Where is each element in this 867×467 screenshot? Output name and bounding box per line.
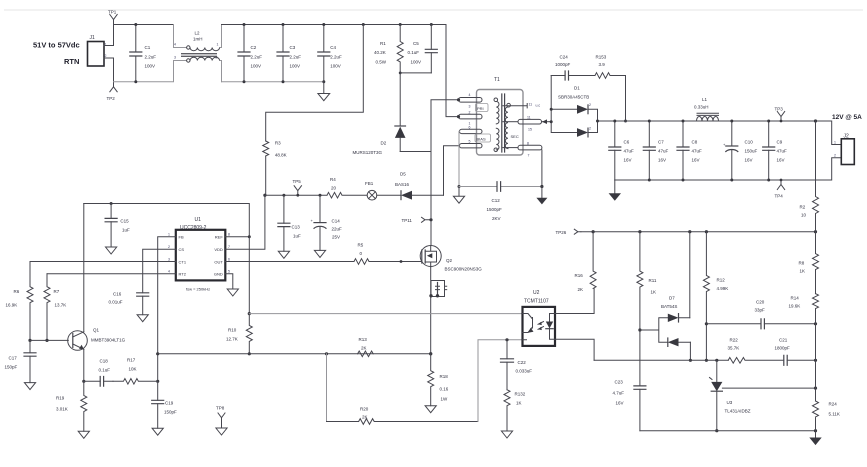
svg-text:OUT: OUT (214, 259, 223, 264)
svg-text:R14: R14 (791, 296, 800, 301)
svg-text:100V: 100V (251, 64, 262, 69)
svg-text:2.2uF: 2.2uF (330, 55, 342, 60)
wire J1 pin1 to rail (104, 25, 114, 46)
svg-text:D5: D5 (400, 172, 406, 177)
svg-text:R2: R2 (800, 205, 806, 210)
svg-text:13.7K: 13.7K (55, 303, 67, 308)
svg-text:U1: U1 (195, 217, 202, 223)
svg-text:19.6K: 19.6K (789, 304, 801, 309)
svg-text:16V: 16V (616, 401, 624, 406)
svg-text:C22: C22 (518, 360, 527, 365)
svg-text:1800pF: 1800pF (775, 346, 791, 351)
svg-text:1500pF: 1500pF (487, 207, 503, 212)
svg-text:U3: U3 (727, 400, 733, 405)
capacitor C12 (459, 182, 542, 221)
diode D2 MURS120T3G (353, 73, 406, 155)
wire OUT pin6 to R5 (225, 261, 354, 263)
svg-text:CT1: CT1 (179, 259, 187, 264)
resistor R6 (6, 262, 34, 343)
capacitor C6 (609, 120, 634, 181)
svg-text:BSC900N20NS3G: BSC900N20NS3G (445, 267, 483, 272)
svg-text:1uF: 1uF (293, 234, 301, 239)
svg-text:TL431AIDBZ: TL431AIDBZ (725, 409, 751, 414)
connector J1 (88, 35, 107, 66)
svg-text:PRI: PRI (477, 106, 484, 111)
wire VDD node line (265, 194, 327, 196)
wire opto collector long line (249, 313, 522, 315)
svg-text:CS: CS (179, 247, 185, 252)
resistor R17 (113, 358, 158, 385)
svg-text:C20: C20 (756, 300, 765, 305)
svg-text:3: 3 (168, 257, 170, 261)
T1 primary pin stub 2/1 (459, 114, 483, 119)
svg-text:1K: 1K (651, 290, 657, 295)
capacitor C23 (613, 380, 646, 431)
svg-text:15: 15 (528, 128, 532, 132)
svg-text:12V @ 5A: 12V @ 5A (832, 114, 862, 121)
wire VDD pin7 (225, 194, 266, 250)
svg-text:16V: 16V (745, 158, 753, 163)
resistor R4 (327, 177, 367, 198)
transistor Q2 BSC900N20NS3G mosfet (420, 246, 482, 272)
svg-text:J1: J1 (90, 35, 96, 41)
svg-text:3: 3 (469, 105, 471, 109)
ferrite bead FB1 (365, 181, 401, 200)
svg-text:2KV: 2KV (492, 216, 501, 221)
svg-text:FB1: FB1 (365, 181, 374, 186)
diode D7 BAT54S dual (640, 232, 692, 362)
svg-text:R12: R12 (717, 278, 726, 283)
ground output filled (609, 180, 621, 201)
capacitor C22 (501, 340, 533, 390)
output label 12V @ 5A (832, 114, 862, 121)
svg-text:R3: R3 (275, 141, 281, 146)
resistor R3 (263, 141, 287, 196)
connector J2 (834, 134, 854, 165)
svg-text:R5: R5 (358, 243, 364, 248)
svg-text:2K: 2K (578, 287, 584, 292)
capacitor C2 (238, 23, 262, 83)
svg-text:20: 20 (331, 186, 337, 191)
svg-text:100V: 100V (145, 64, 156, 69)
wire FB pin1 (156, 237, 176, 383)
svg-text:51V to 57Vdc: 51V to 57Vdc (33, 41, 80, 50)
svg-text:TP8: TP8 (216, 406, 225, 411)
resistor R132 (501, 390, 525, 438)
capacitor C15 (105, 202, 130, 254)
svg-text:4: 4 (469, 93, 471, 97)
svg-text:R18: R18 (440, 374, 449, 379)
capacitor C17 (5, 340, 37, 389)
svg-text:D1: D1 (574, 86, 580, 91)
svg-text:TP4: TP4 (775, 194, 784, 199)
svg-text:L2: L2 (195, 31, 201, 36)
input label 51V to 57Vdc (33, 41, 80, 50)
svg-text:U2: U2 (533, 290, 540, 296)
svg-text:C2: C2 (251, 45, 257, 50)
svg-text:REF: REF (215, 235, 224, 240)
svg-text:2: 2 (168, 245, 170, 249)
svg-text:TP11: TP11 (402, 218, 413, 223)
wire T1 pin 4 to drain (431, 98, 460, 151)
wire J1 pin2 down to bottom rail (104, 58, 114, 82)
svg-text:R4: R4 (330, 177, 336, 182)
svg-text:TP3: TP3 (775, 107, 784, 112)
svg-text:6: 6 (469, 126, 471, 130)
svg-text:R17: R17 (127, 358, 136, 363)
svg-text:1uF: 1uF (122, 228, 130, 233)
svg-text:1: 1 (834, 141, 836, 145)
wire CT pin3 to R6 (30, 261, 176, 263)
svg-text:RT2: RT2 (179, 272, 187, 277)
wire REF line pin8 (84, 204, 251, 239)
svg-text:4: 4 (168, 270, 170, 274)
svg-text:0.033uF: 0.033uF (516, 369, 533, 374)
svg-text:16.9K: 16.9K (6, 303, 18, 308)
T1 BIAS winding (475, 134, 491, 142)
wire Q1 base line (30, 339, 68, 341)
svg-text:4.7uF: 4.7uF (613, 391, 625, 396)
svg-text:T1: T1 (494, 77, 500, 83)
svg-text:BIAS: BIAS (477, 137, 486, 142)
wire bottom rail after choke (222, 81, 324, 83)
svg-text:150pF: 150pF (5, 365, 18, 370)
wire sense rail TP26 (581, 230, 817, 233)
test point TP11 (402, 217, 433, 223)
wire T1 bias pin 5 to VDD line (444, 146, 460, 196)
capacitor C5 (408, 23, 438, 73)
svg-text:47uF: 47uF (624, 149, 635, 154)
resistor R8 (799, 232, 819, 294)
svg-text:TP5: TP5 (293, 179, 302, 184)
T1 primary pin stub 4/3 (459, 98, 483, 103)
svg-text:33pF: 33pF (755, 308, 766, 313)
svg-text:11: 11 (527, 116, 531, 120)
svg-text:0.5W: 0.5W (376, 60, 387, 65)
test point TP2 (107, 82, 118, 101)
svg-text:SBR30A45CTB: SBR30A45CTB (558, 95, 589, 100)
svg-text:MURS120T3G: MURS120T3G (353, 150, 383, 155)
svg-text:Q1: Q1 (93, 328, 100, 333)
diode D1 SBR30A45CTB dual (550, 76, 615, 137)
wire R20 branch (327, 354, 359, 422)
svg-text:5: 5 (228, 270, 230, 274)
svg-text:2: 2 (589, 127, 591, 131)
svg-text:R22: R22 (730, 338, 739, 343)
transformer T1 (459, 77, 524, 155)
svg-text:C6: C6 (624, 140, 630, 145)
T1 sec u.c. stub pin 11 (503, 103, 540, 108)
T1 core (502, 94, 505, 152)
svg-text:VDD: VDD (214, 247, 223, 252)
svg-text:4: 4 (174, 43, 176, 47)
wire clamp bottom (399, 72, 431, 75)
T1 bias pin stub 6 (460, 129, 483, 133)
test point TP26 (556, 229, 581, 235)
svg-text:TP2: TP2 (107, 96, 116, 101)
svg-text:25V: 25V (332, 235, 340, 240)
svg-text:C1: C1 (145, 45, 151, 50)
faint page border line (4, 9, 863, 11)
svg-text:2: 2 (834, 154, 836, 158)
inductor L2 common-mode choke (174, 25, 222, 82)
wire REF to R10 (248, 237, 250, 314)
test point TP1 (108, 10, 117, 25)
svg-text:R11: R11 (649, 278, 657, 283)
resistor R2 (800, 119, 819, 231)
svg-text:R8: R8 (799, 261, 805, 266)
T1 bias pin stub 5 (460, 144, 483, 148)
svg-text:100V: 100V (411, 60, 422, 65)
wire 12V output rail (615, 121, 842, 145)
svg-text:C19: C19 (165, 401, 174, 406)
svg-text:R1: R1 (380, 41, 386, 46)
svg-text:5.11K: 5.11K (829, 412, 840, 417)
svg-text:Q2: Q2 (446, 258, 453, 263)
snubber resistor R153 (595, 55, 627, 123)
svg-text:u.c: u.c (536, 104, 541, 108)
wire divider mid (815, 324, 817, 431)
svg-text:3.01K: 3.01K (56, 407, 68, 412)
svg-text:TP1: TP1 (108, 10, 117, 15)
wire startup bracket (266, 23, 365, 141)
capacitor C4 (318, 23, 342, 83)
svg-text:D2: D2 (381, 141, 387, 146)
svg-text:16V: 16V (777, 158, 785, 163)
svg-text:0.16: 0.16 (440, 387, 449, 392)
capacitor C8 (677, 120, 702, 182)
capacitor C9 (763, 120, 787, 182)
resistor R22 (728, 338, 784, 364)
svg-text:1000pF: 1000pF (555, 62, 571, 67)
svg-text:R153: R153 (596, 55, 607, 60)
svg-text:1W: 1W (441, 397, 449, 402)
current sense loop below Q2 (429, 267, 446, 354)
resistor R13 (358, 337, 374, 357)
svg-text:C10: C10 (745, 140, 754, 145)
svg-text:D7: D7 (669, 296, 675, 301)
svg-text:1mH: 1mH (193, 37, 203, 42)
resistor R18 (425, 354, 449, 413)
capacitor C20 (706, 300, 817, 329)
test point TP4 (775, 179, 785, 199)
svg-text:C12: C12 (492, 198, 501, 203)
wire top rail input (114, 25, 187, 48)
inductor L1 (694, 97, 719, 121)
wire secondary lower ground rail (640, 429, 817, 432)
svg-text:2: 2 (105, 54, 107, 58)
svg-text:8: 8 (228, 233, 230, 237)
wire top rail after choke (222, 24, 447, 26)
svg-text:TCMT1107: TCMT1107 (524, 299, 549, 305)
svg-text:35.7K: 35.7K (728, 346, 740, 351)
svg-text:22uF: 22uF (332, 227, 343, 232)
svg-text:1: 1 (217, 43, 219, 47)
svg-text:6: 6 (228, 257, 230, 261)
diode D5 BAS16 (395, 172, 444, 200)
svg-text:TP26: TP26 (556, 230, 567, 235)
svg-text:2.2uF: 2.2uF (251, 55, 263, 60)
capacitor C10 polarized (723, 120, 758, 182)
capacitor C16 (109, 292, 149, 322)
svg-text:FB: FB (179, 235, 184, 240)
svg-text:12.7K: 12.7K (226, 337, 238, 342)
T1 sec output stub 11/15 (503, 116, 542, 132)
wire drain line (430, 100, 432, 246)
svg-text:10K: 10K (129, 367, 137, 372)
svg-text:C8: C8 (692, 140, 698, 145)
svg-text:150uF: 150uF (745, 149, 758, 154)
wire GND pin5 (225, 274, 238, 296)
svg-text:3: 3 (174, 56, 176, 60)
svg-text:2: 2 (469, 111, 471, 115)
svg-text:C4: C4 (330, 45, 336, 50)
svg-text:C21: C21 (779, 338, 788, 343)
resistor R5 (354, 243, 420, 265)
resistor R19 (56, 381, 89, 438)
resistor R7 (44, 274, 66, 342)
svg-text:7: 7 (228, 245, 230, 249)
svg-text:1K: 1K (800, 269, 806, 274)
svg-text:11: 11 (529, 103, 533, 107)
svg-text:2.2uF: 2.2uF (290, 55, 302, 60)
wire comp rail (594, 359, 728, 362)
ground bias open triangle (453, 187, 464, 204)
wire sec return down to ground (540, 150, 543, 188)
wire T1 sec to D1 with arrow (542, 119, 552, 124)
wire CS pin2 to C16 (143, 249, 176, 293)
ground secondary lower filled (809, 431, 821, 445)
ground secondary filled at C12 (536, 187, 547, 205)
svg-text:4.99K: 4.99K (717, 286, 729, 291)
svg-text:BAS16: BAS16 (395, 182, 410, 187)
svg-text:0.1uF: 0.1uF (99, 368, 111, 373)
capacitor C21 (775, 338, 818, 366)
svg-text:2K: 2K (361, 346, 367, 351)
capacitor C19 (152, 381, 177, 435)
capacitor C7 (643, 120, 668, 182)
capacitor C1 (130, 23, 156, 83)
svg-text:47uF: 47uF (692, 149, 703, 154)
svg-text:R13: R13 (359, 337, 368, 342)
svg-text:R24: R24 (829, 402, 838, 407)
test point TP8 (216, 406, 227, 436)
capacitor C13 (278, 194, 301, 259)
wire opto LED cathode to comp rail (555, 339, 594, 360)
svg-text:C3: C3 (290, 45, 296, 50)
svg-text:0.01uF: 0.01uF (109, 300, 123, 305)
resistor R14 (789, 294, 819, 324)
svg-text:BAT54S: BAT54S (661, 304, 677, 309)
svg-text:R19: R19 (56, 396, 65, 401)
svg-text:100V: 100V (290, 64, 301, 69)
svg-text:48.8K: 48.8K (275, 153, 287, 158)
resistor R1 (374, 23, 403, 73)
svg-text:C15: C15 (120, 219, 129, 224)
svg-text:C18: C18 (100, 359, 109, 364)
svg-text:C14: C14 (332, 219, 341, 224)
resistor R11 (637, 232, 657, 386)
wire CS sense line (158, 352, 433, 355)
wire D2 anode to drain line (400, 151, 431, 153)
svg-text:R10: R10 (228, 328, 237, 333)
svg-text:C16: C16 (113, 292, 122, 297)
wire opto emitter drop (478, 338, 523, 421)
wire rail down to T1 pin 2 (446, 25, 459, 117)
svg-text:5: 5 (469, 140, 471, 144)
ground under C4 (318, 82, 330, 101)
svg-text:16V: 16V (624, 158, 632, 163)
svg-text:SEC: SEC (511, 134, 519, 139)
svg-text:C5: C5 (413, 41, 419, 46)
svg-text:1: 1 (168, 233, 170, 237)
svg-text:16V: 16V (692, 158, 700, 163)
shunt regulator U3 TL431AIDBZ (710, 360, 751, 432)
wire bottom rail input (114, 61, 187, 82)
resistor R12 (703, 232, 728, 362)
wire output ground rail (615, 158, 842, 180)
svg-text:R7: R7 (54, 289, 60, 294)
capacitor C18 (84, 359, 113, 387)
svg-text:1K: 1K (516, 401, 522, 406)
svg-text:RTN: RTN (64, 57, 79, 66)
svg-text:C7: C7 (658, 140, 664, 145)
svg-text:16V: 16V (658, 158, 666, 163)
resistor R20 (359, 407, 478, 425)
capacitor C14 polarized (311, 194, 343, 258)
svg-text:100V: 100V (330, 64, 341, 69)
wire T1 bias pin 6 to primary ground (458, 131, 461, 188)
svg-text:2.2uF: 2.2uF (145, 55, 157, 60)
svg-text:0.33uH: 0.33uH (694, 105, 709, 110)
input label RTN (64, 57, 79, 66)
wire RT pin4 to R7 (47, 273, 176, 275)
svg-text:R6: R6 (14, 289, 20, 294)
svg-text:GND: GND (214, 272, 223, 277)
test point TP5 (293, 179, 302, 197)
test point TP3 (775, 107, 785, 123)
T1 PRI winding (476, 104, 489, 112)
optocoupler U2 TCMT1107 (523, 290, 556, 346)
transistor Q1 MMBT3904LT1G (68, 204, 126, 383)
svg-text:40.2K: 40.2K (374, 50, 386, 55)
svg-text:0.1uF: 0.1uF (408, 50, 420, 55)
svg-text:150pF: 150pF (164, 410, 177, 415)
svg-text:R20: R20 (360, 407, 369, 412)
svg-text:3.9: 3.9 (599, 62, 606, 67)
resistor R24 (813, 401, 840, 417)
svg-text:C13: C13 (292, 225, 301, 230)
svg-text:R16: R16 (575, 273, 584, 278)
svg-text:C24: C24 (560, 55, 569, 60)
svg-text:7: 7 (528, 154, 530, 158)
svg-text:C9: C9 (777, 140, 783, 145)
resistor R16 (575, 232, 597, 292)
snubber C24 (551, 55, 595, 81)
wire opto collector to R16 (555, 289, 594, 314)
svg-text:10: 10 (801, 213, 807, 218)
capacitor C3 (277, 23, 301, 83)
wire TL431 ref line (722, 387, 817, 390)
svg-text:47uF: 47uF (658, 149, 669, 154)
svg-text:C17: C17 (9, 356, 18, 361)
svg-text:R132: R132 (515, 392, 526, 397)
svg-text:8: 8 (527, 142, 529, 146)
resistor R10 (226, 312, 252, 355)
svg-text:MMBT3904LT1G: MMBT3904LT1G (91, 338, 126, 343)
svg-text:2: 2 (589, 103, 591, 107)
op-amp U1 UCC2809-2 controller (168, 217, 230, 292)
